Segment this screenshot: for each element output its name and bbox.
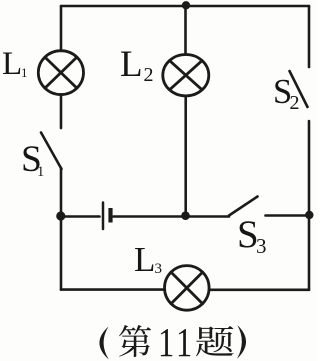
caption char ti2 xyxy=(196,326,234,356)
caption char di4 xyxy=(119,325,151,357)
wire left vertical lower xyxy=(60,216,63,290)
wire L1 branch top xyxy=(60,6,63,51)
node A left junction xyxy=(56,211,65,220)
lamp L2 xyxy=(163,54,209,95)
wire S3 to node B xyxy=(266,214,310,217)
wire bottom left xyxy=(61,288,165,291)
caption paren right xyxy=(237,325,246,359)
node mid junction xyxy=(181,211,190,220)
label L1 xyxy=(2,48,22,81)
wire top horizontal xyxy=(61,5,309,8)
switch S1 blade xyxy=(41,133,62,170)
battery short plate xyxy=(108,208,112,223)
caption digit 1 first xyxy=(158,322,174,361)
wire L2 branch top xyxy=(184,6,187,54)
label S3 xyxy=(237,215,259,254)
switch S2 blade xyxy=(290,71,308,107)
wire battery to S3 xyxy=(114,215,230,218)
caption paren left xyxy=(99,327,108,360)
node B right junction xyxy=(305,211,313,219)
lamp L1 xyxy=(38,51,83,95)
wire right vertical lower xyxy=(308,215,311,290)
wire right vertical top xyxy=(308,6,311,67)
label L3 xyxy=(134,242,155,277)
wire node A to battery xyxy=(61,215,100,218)
switch S3 blade xyxy=(229,197,258,216)
wire bottom right xyxy=(209,288,309,291)
lamp L3 xyxy=(165,266,210,311)
wire right vertical mid xyxy=(308,121,311,215)
battery long plate xyxy=(102,203,105,230)
wire L1 to S1 xyxy=(60,95,63,128)
label L2 xyxy=(120,46,143,83)
label S2 xyxy=(273,75,292,110)
label S1 xyxy=(21,141,42,179)
node top junction xyxy=(182,1,190,9)
caption digit 1 second xyxy=(176,322,192,361)
wire S1 to node A xyxy=(60,168,63,216)
wire L2 branch bottom xyxy=(184,96,187,216)
